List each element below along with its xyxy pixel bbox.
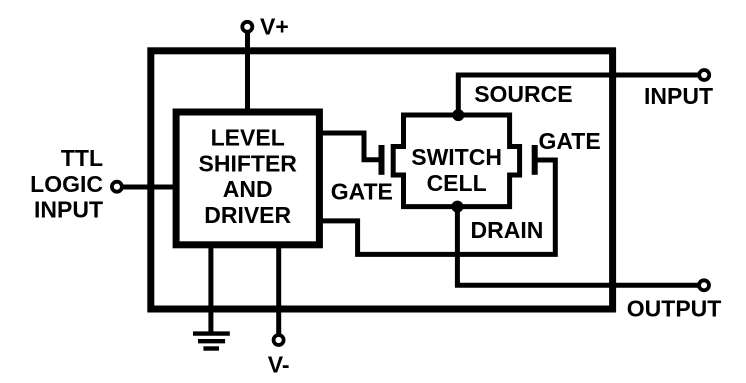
level shifter block U1: [176, 112, 319, 245]
svg-text:DRIVER: DRIVER: [204, 202, 291, 228]
svg-text:SWITCH: SWITCH: [411, 144, 502, 170]
V- terminal: [274, 335, 284, 345]
svg-text:INPUT: INPUT: [644, 83, 713, 109]
svg-text:SOURCE: SOURCE: [474, 81, 572, 107]
output terminal: [699, 280, 709, 290]
node: drain junction dot: [451, 201, 463, 213]
switch cell outline with channel notches: [393, 115, 519, 207]
wire: level shifter to left gate: [319, 133, 379, 160]
svg-text:TTL: TTL: [61, 145, 103, 171]
gate bar of left transistor Q1: [379, 145, 385, 175]
wire: level shifter to right gate (routed under switch cell): [319, 160, 555, 254]
svg-text:V-: V-: [268, 352, 290, 378]
V+ terminal: [242, 22, 252, 32]
svg-text:LOGIC: LOGIC: [30, 171, 103, 197]
svg-text:SHIFTER: SHIFTER: [199, 150, 298, 176]
drain wire to output terminal: [457, 207, 699, 286]
svg-text:INPUT: INPUT: [34, 196, 103, 222]
svg-text:GATE: GATE: [331, 178, 393, 204]
TTL logic input wire: [122, 185, 176, 190]
outer box (package boundary): [151, 51, 613, 309]
V+ wire: [245, 31, 250, 112]
input terminal: [699, 70, 709, 80]
svg-text:CELL: CELL: [427, 170, 487, 196]
node: source junction dot: [452, 109, 464, 121]
svg-text:V+: V+: [260, 14, 289, 40]
svg-text:LEVEL: LEVEL: [211, 124, 285, 150]
gate bar of right transistor Q2: [532, 145, 538, 175]
ground wire: [208, 245, 213, 334]
svg-text:AND: AND: [223, 176, 273, 202]
svg-text:GATE: GATE: [539, 128, 601, 154]
svg-text:OUTPUT: OUTPUT: [627, 296, 722, 322]
ground symbol: [193, 331, 230, 335]
TTL logic input terminal: [112, 182, 122, 192]
svg-text:DRAIN: DRAIN: [471, 217, 544, 243]
source wire to input terminal: [458, 75, 699, 115]
V- wire: [276, 245, 281, 334]
